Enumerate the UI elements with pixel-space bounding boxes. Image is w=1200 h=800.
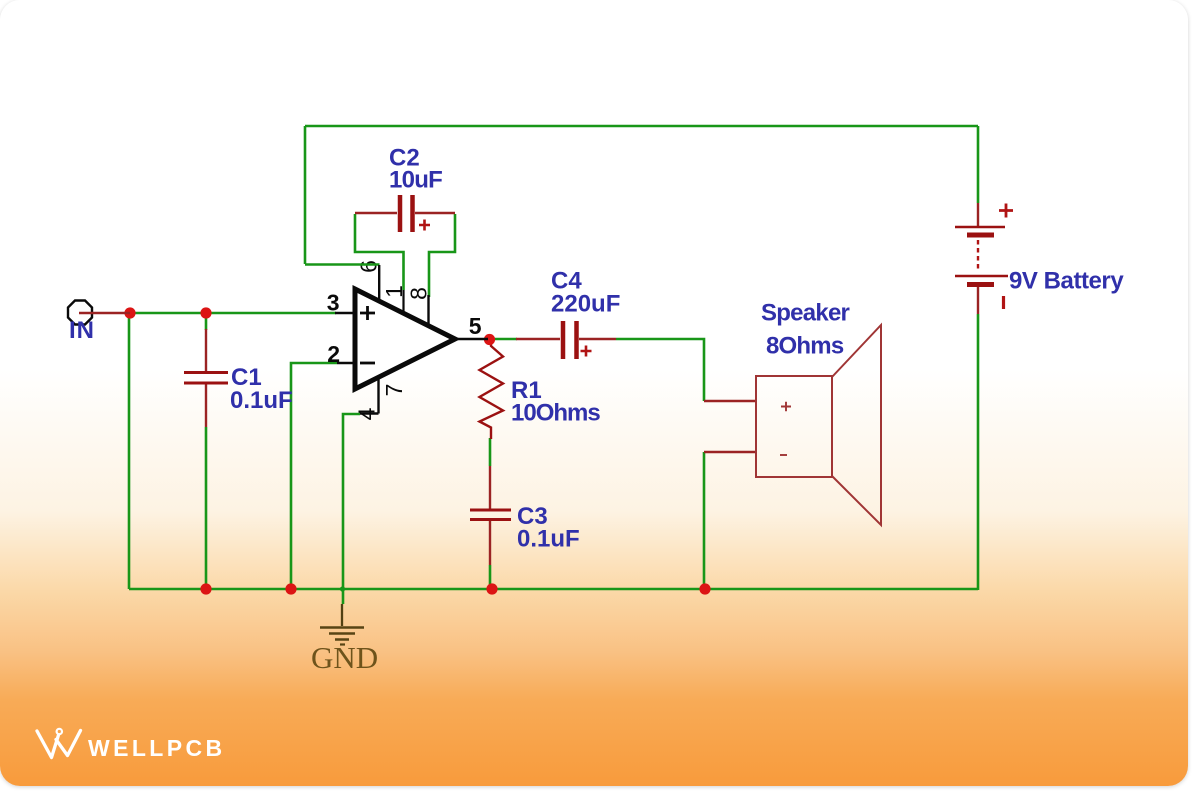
capacitor C3	[470, 510, 511, 520]
wire R1 C3 red leads	[489, 466, 491, 565]
wire battery red leads	[977, 203, 979, 314]
svg-text:7: 7	[381, 384, 407, 397]
wire pin2	[291, 363, 337, 589]
op-amp U1 triangle	[355, 289, 455, 389]
wire C2 left loop	[355, 214, 404, 290]
pin 8 lead	[427, 295, 429, 325]
wire output green segment	[494, 338, 517, 341]
pin 4 lead	[360, 412, 379, 414]
wire C1 top green	[205, 313, 208, 330]
blue value labels	[69, 145, 1124, 553]
svg-text:3: 3	[327, 290, 340, 316]
wire C1 red leads	[205, 329, 207, 427]
wire pin6 horizontal	[305, 263, 380, 266]
wire pin4 to gnd	[343, 414, 360, 604]
green junction at gnd	[340, 586, 345, 591]
wire speaker minus vertical	[703, 452, 706, 589]
pin 1 lead	[402, 290, 404, 313]
svg-text:Speaker: Speaker	[761, 300, 850, 327]
wire C1 bottom green	[205, 427, 208, 589]
wire left feedback vertical	[304, 126, 307, 264]
svg-text:9V Battery: 9V Battery	[1009, 268, 1124, 295]
capacitor C2	[400, 195, 413, 232]
svg-text:GND: GND	[311, 640, 378, 675]
wire bottom ground rail	[129, 588, 978, 591]
capacitor C1	[184, 373, 228, 384]
logo wellpcb	[37, 731, 81, 758]
wire speaker minus lead	[704, 451, 757, 453]
battery BT1	[999, 204, 1013, 218]
svg-text:2: 2	[327, 341, 340, 367]
wire pin3 input	[130, 312, 336, 315]
wire C3 bottom green	[489, 565, 492, 589]
pin 7 lead	[377, 376, 379, 414]
capacitor C4	[563, 321, 577, 359]
pin 6 lead	[378, 265, 380, 301]
svg-text:WELLPCB: WELLPCB	[88, 735, 226, 761]
svg-text:IN: IN	[69, 317, 95, 344]
wire battery top vertical	[977, 126, 980, 203]
op-amp pin stubs	[335, 313, 488, 363]
speaker LS1	[756, 376, 832, 477]
wire C4 to speaker	[616, 339, 704, 401]
wire C2 right loop	[429, 214, 455, 297]
wire R1 to C3 green	[489, 438, 492, 466]
rotated pin number labels (drawn under wires)	[354, 260, 432, 420]
resistor R1	[480, 340, 504, 439]
wire battery bottom vertical	[977, 314, 980, 590]
svg-text:0.1uF: 0.1uF	[517, 526, 580, 553]
ground symbol	[341, 604, 343, 626]
wire top rail	[305, 125, 978, 128]
wire IN red stub	[79, 312, 130, 314]
svg-text:5: 5	[469, 313, 482, 339]
wire left input vertical	[128, 313, 131, 589]
svg-text:220uF: 220uF	[551, 291, 620, 318]
svg-text:8Ohms: 8Ohms	[766, 333, 844, 360]
svg-text:0.1uF: 0.1uF	[230, 387, 293, 414]
wire output red segments	[516, 338, 616, 340]
svg-text:10Ohms: 10Ohms	[511, 400, 600, 427]
pin number labels	[327, 290, 482, 368]
junction node dots	[124, 307, 135, 318]
connector IN octagon	[68, 301, 92, 325]
wire speaker plus lead	[704, 400, 757, 402]
svg-text:10uF: 10uF	[389, 167, 442, 194]
svg-text:6: 6	[356, 260, 382, 273]
